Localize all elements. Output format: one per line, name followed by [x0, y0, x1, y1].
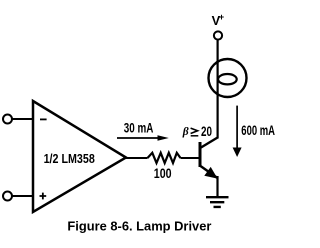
svg-text:100: 100 [154, 166, 172, 181]
svg-text:1/2 LM358: 1/2 LM358 [44, 151, 95, 166]
svg-text:20: 20 [201, 123, 212, 139]
svg-text:β: β [182, 126, 189, 138]
svg-text:Figure 8-6. Lamp Driver: Figure 8-6. Lamp Driver [67, 219, 211, 234]
svg-text:30 mA: 30 mA [124, 121, 154, 136]
svg-text:+: + [219, 12, 224, 22]
svg-text:600 mA: 600 mA [241, 123, 275, 138]
